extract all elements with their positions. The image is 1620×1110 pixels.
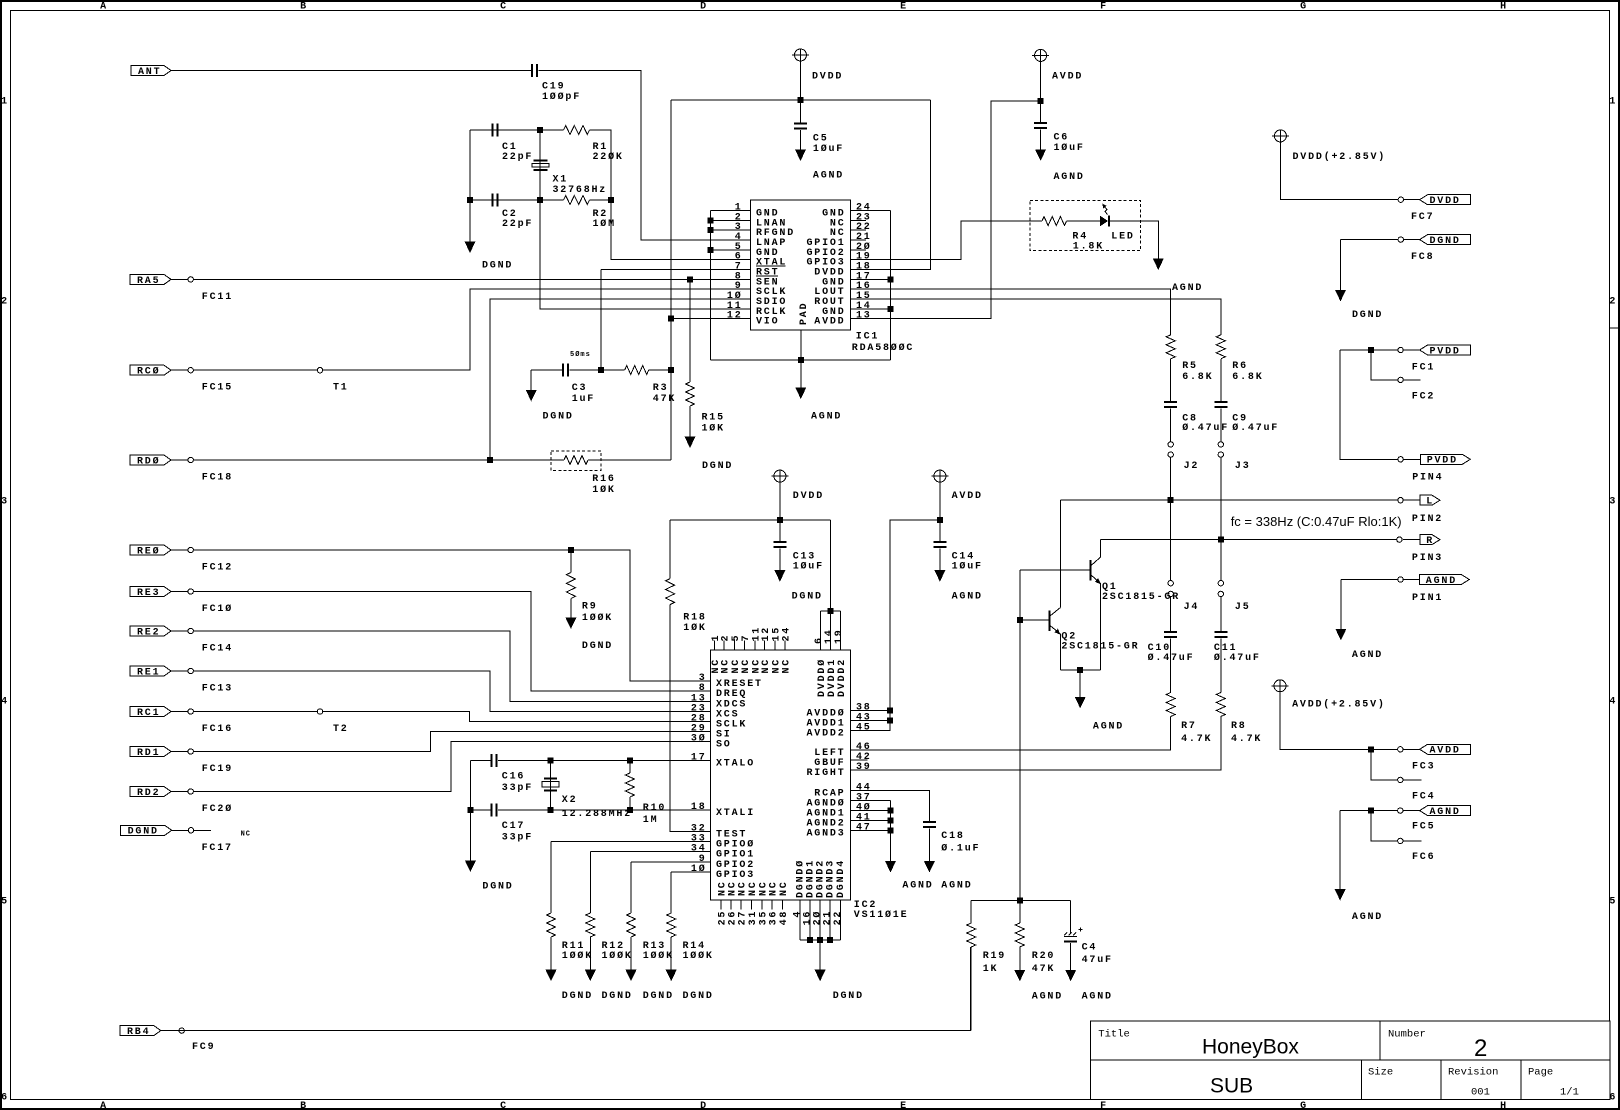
wire AVDD rail to pin 13 xyxy=(851,101,1041,319)
ground DGND R11 xyxy=(546,970,557,982)
svg-text:R9: R9 xyxy=(582,601,598,612)
wire R row xyxy=(1101,539,1397,541)
wire C19 to IC1 pin 4 LNAP xyxy=(539,71,751,241)
svg-text:H: H xyxy=(1500,1101,1508,1110)
junction AGND1 xyxy=(888,808,893,813)
svg-text:J2: J2 xyxy=(1184,461,1200,472)
wire R5 to C8 xyxy=(1170,359,1172,402)
diode LED xyxy=(1100,204,1110,227)
svg-text:1/1: 1/1 xyxy=(1560,1087,1579,1099)
ground AGND LED xyxy=(1153,259,1164,271)
svg-text:DVDD: DVDD xyxy=(812,72,843,83)
svg-text:48: 48 xyxy=(779,910,790,926)
svg-text:NC: NC xyxy=(748,880,759,896)
wire rail to AGND xyxy=(800,360,802,388)
wire C4 to ground xyxy=(1070,943,1072,970)
svg-text:NC: NC xyxy=(761,658,772,674)
junction RE0 R9 xyxy=(568,548,573,553)
wire emitters to ground xyxy=(1079,670,1081,697)
IC2 bottom NC pin 31 xyxy=(751,900,753,910)
svg-text:18: 18 xyxy=(691,802,707,813)
resistor R3 xyxy=(625,366,649,375)
wire XTALO rail xyxy=(470,760,491,762)
svg-text:2: 2 xyxy=(1474,1035,1487,1062)
svg-text:RB4: RB4 xyxy=(127,1027,150,1038)
svg-text:22pF: 22pF xyxy=(502,152,533,163)
svg-text:GND: GND xyxy=(822,307,845,318)
capacitor C5 plates xyxy=(794,123,807,129)
svg-text:Number: Number xyxy=(1388,1029,1426,1041)
svg-text:DGND: DGND xyxy=(602,991,633,1002)
svg-text:12: 12 xyxy=(761,626,772,642)
wire IC1 pin21 GPIO1 stub xyxy=(851,239,867,241)
IC2 DGND2 pin 20 xyxy=(819,900,821,940)
wire GPIO3 to R14 xyxy=(671,871,710,873)
capacitor C11 xyxy=(1214,632,1227,638)
junction R3 right xyxy=(669,368,674,373)
IC2 bottom NC pin 25 xyxy=(720,900,722,910)
svg-text:C16: C16 xyxy=(502,772,525,783)
junction AVDD rail IC2 xyxy=(937,518,942,523)
junction AVDD1 xyxy=(888,718,893,723)
port connector RE0 xyxy=(130,545,171,555)
svg-text:XTALI: XTALI xyxy=(716,808,755,819)
svg-text:FC3: FC3 xyxy=(1412,761,1435,772)
svg-text:2SC1815-GR: 2SC1815-GR xyxy=(1102,592,1180,603)
svg-text:1ØuF: 1ØuF xyxy=(793,561,824,573)
wire to C6 xyxy=(1040,101,1042,123)
resistor R16 optional dashed box xyxy=(551,451,601,471)
wire DVDD to R18 xyxy=(669,520,671,579)
svg-text:FC2: FC2 xyxy=(1412,392,1435,403)
junction AVDD rail xyxy=(1038,98,1043,103)
svg-text:DVDD: DVDD xyxy=(793,491,824,502)
ground AGND C18 xyxy=(924,861,935,873)
power symbol DVDD IC2 xyxy=(771,470,788,482)
junction FC3 xyxy=(1368,747,1373,752)
svg-text:13: 13 xyxy=(856,311,872,322)
wire DGND bus xyxy=(800,939,840,941)
svg-text:XTALO: XTALO xyxy=(716,759,755,770)
wire IC1 pin2 stub xyxy=(711,219,751,221)
svg-text:R19: R19 xyxy=(983,951,1006,962)
capacitor C14 plates xyxy=(933,542,946,548)
svg-text:1: 1 xyxy=(1,96,9,107)
wire X2 vertical xyxy=(550,761,552,811)
wire R20 top xyxy=(1019,901,1021,924)
node FC3 circle xyxy=(1398,747,1403,752)
svg-text:NC: NC xyxy=(769,880,780,896)
svg-text:GPIO1: GPIO1 xyxy=(806,238,845,249)
port connector DGND FC8 xyxy=(1403,239,1419,241)
resistor R1 xyxy=(564,126,590,135)
IC2 bottom NC pin 35 xyxy=(761,900,763,910)
wire FC8 to ground xyxy=(1340,240,1342,290)
junction X1 bottom xyxy=(538,198,543,203)
svg-text:C17: C17 xyxy=(502,821,525,832)
svg-text:Ø.47uF: Ø.47uF xyxy=(1214,652,1261,664)
wire GPIO1 jog xyxy=(589,852,591,913)
svg-text:FC11: FC11 xyxy=(202,292,233,303)
junction DGND bus b xyxy=(818,938,823,943)
svg-text:GND: GND xyxy=(822,277,845,288)
svg-text:AGND: AGND xyxy=(1426,576,1457,587)
wire IC1 pin3 stub xyxy=(711,229,751,231)
junction SEN R15 xyxy=(688,277,693,282)
capacitor C3 xyxy=(563,364,569,377)
wire IC1 pin24 GND stub xyxy=(851,210,891,212)
svg-text:1ØK: 1ØK xyxy=(702,422,725,434)
svg-text:17: 17 xyxy=(691,753,707,764)
wire C6 to ground xyxy=(1040,130,1042,150)
svg-text:1ØØK: 1ØØK xyxy=(643,950,674,962)
svg-text:1ØØK: 1ØØK xyxy=(683,950,714,962)
svg-text:R16: R16 xyxy=(592,474,615,485)
svg-text:FC9: FC9 xyxy=(192,1042,215,1053)
wire C4 top xyxy=(1070,901,1072,934)
svg-text:18: 18 xyxy=(856,262,872,273)
wire IC1 pin23 NC stub xyxy=(851,219,867,221)
wire ROUT to R6 xyxy=(851,299,1221,335)
ground AGND C4 xyxy=(1065,970,1076,982)
wire C11 to R8 xyxy=(1220,639,1222,693)
svg-text:47uF: 47uF xyxy=(1082,955,1113,966)
junction AGND3 xyxy=(888,828,893,833)
svg-text:22pF: 22pF xyxy=(502,219,533,230)
wire AVDD1 stub xyxy=(851,720,891,722)
transistor Q2 2SC1815-GR xyxy=(1049,608,1061,635)
svg-text:NC: NC xyxy=(830,218,846,229)
wire GPIO0 jog xyxy=(550,842,552,913)
svg-text:DGND: DGND xyxy=(543,411,574,422)
wire DVDD stem xyxy=(800,61,802,100)
node RD1 circle xyxy=(188,749,193,754)
svg-text:AGND: AGND xyxy=(1032,991,1063,1002)
svg-text:DGND: DGND xyxy=(128,827,159,838)
wire AGND1 stub xyxy=(851,810,891,812)
wire IC1 pin5 stub xyxy=(711,249,751,251)
svg-text:AGND: AGND xyxy=(1082,991,1113,1002)
wire AGND2 stub xyxy=(851,820,891,822)
svg-text:FC6: FC6 xyxy=(1412,852,1435,863)
svg-text:25: 25 xyxy=(717,910,728,926)
crystal X2 xyxy=(542,778,559,791)
wire R13 to ground xyxy=(630,937,632,970)
port connector RD2 xyxy=(130,787,171,797)
port connector RD0 xyxy=(130,455,171,465)
IC2 bottom NC pin 26 xyxy=(730,900,732,910)
wire IC1 ground rail xyxy=(711,359,891,361)
svg-text:24: 24 xyxy=(856,203,872,214)
svg-text:C5: C5 xyxy=(813,133,829,144)
svg-text:R8: R8 xyxy=(1231,721,1247,732)
wire DVDD1 stub xyxy=(830,611,832,650)
svg-text:SO: SO xyxy=(716,740,732,751)
wire DVDD rail to bus xyxy=(830,520,832,611)
svg-text:FC12: FC12 xyxy=(202,563,233,574)
IC2 VS1101E body xyxy=(710,650,850,900)
svg-text:R20: R20 xyxy=(1032,951,1055,962)
resistor R7 xyxy=(1166,693,1175,717)
ground DGND R13 xyxy=(626,970,637,982)
resistor R18 xyxy=(666,579,675,605)
jumper J5 pad B xyxy=(1218,591,1223,596)
wire R1 to right rail xyxy=(590,130,751,260)
wire R19 to RB4 xyxy=(970,947,972,1031)
wire R2 to right rail xyxy=(590,199,612,201)
svg-text:17: 17 xyxy=(856,271,872,282)
svg-text:PIN4: PIN4 xyxy=(1412,473,1443,484)
wire FC6 jog xyxy=(1371,811,1398,841)
svg-text:1.8K: 1.8K xyxy=(1073,242,1104,253)
junction VIO xyxy=(669,316,674,321)
resistor R14 xyxy=(667,913,676,937)
svg-text:15: 15 xyxy=(856,291,872,302)
port connector RE2 xyxy=(130,626,171,636)
svg-text:3Ø: 3Ø xyxy=(691,733,707,745)
wire DVDD rail xyxy=(671,99,931,101)
wire RST down xyxy=(600,270,602,371)
capacitor C6 plates xyxy=(1034,123,1047,129)
svg-text:4: 4 xyxy=(1,696,9,707)
svg-text:RE1: RE1 xyxy=(137,667,160,678)
svg-text:C: C xyxy=(500,1101,508,1110)
power symbol AVDD xyxy=(1032,49,1049,61)
svg-text:R5: R5 xyxy=(1182,361,1198,372)
wire DVDD rail to pin 18 xyxy=(851,100,931,270)
port connector RC1 xyxy=(130,707,171,717)
svg-text:fc = 338Hz (C:0.47uF Rlo:1K): fc = 338Hz (C:0.47uF Rlo:1K) xyxy=(1231,514,1402,529)
node RD0 circle xyxy=(188,457,193,462)
svg-text:Ø.1uF: Ø.1uF xyxy=(941,843,980,855)
svg-text:Ø.47uF: Ø.47uF xyxy=(1148,652,1195,664)
port connector AVDD FC3 xyxy=(1403,748,1419,750)
wire RC1 to SCLK xyxy=(171,712,711,722)
svg-text:33pF: 33pF xyxy=(502,783,533,794)
svg-text:NC: NC xyxy=(721,658,732,674)
svg-text:PIN1: PIN1 xyxy=(1412,593,1443,604)
svg-text:FC19: FC19 xyxy=(202,764,233,775)
wire emitter rail xyxy=(1060,669,1100,671)
wire DVDD stem IC2 xyxy=(779,482,781,520)
wire RE3 to DREQ xyxy=(171,592,711,692)
wire R4 to LED xyxy=(1067,220,1101,222)
svg-text:4.7K: 4.7K xyxy=(1181,734,1212,745)
ground AGND IC1 PAD xyxy=(795,388,806,400)
ground DGND R9 xyxy=(565,618,576,630)
junction pin17 GND xyxy=(888,277,893,282)
svg-text:DVDD2: DVDD2 xyxy=(837,658,848,697)
wire SEN to R15 xyxy=(689,279,691,382)
svg-text:22: 22 xyxy=(833,910,844,926)
svg-text:D: D xyxy=(700,1101,708,1110)
svg-text:FC15: FC15 xyxy=(202,383,233,394)
svg-text:LED: LED xyxy=(1111,232,1134,243)
junction mute rail xyxy=(1017,898,1022,903)
svg-text:6.8K: 6.8K xyxy=(1182,372,1213,383)
svg-text:FC2Ø: FC2Ø xyxy=(202,803,233,815)
wire RE0 to XRESET xyxy=(171,550,711,681)
node DGND circle xyxy=(188,828,193,833)
svg-text:RE2: RE2 xyxy=(137,627,160,638)
node FC1 circle xyxy=(1398,347,1403,352)
svg-text:2: 2 xyxy=(1,296,9,307)
junction DVDD rail xyxy=(798,98,803,103)
svg-text:DVDD(+2.85V): DVDD(+2.85V) xyxy=(1293,151,1387,163)
wire FC2 jog xyxy=(1371,350,1398,380)
svg-text:12.288MHz: 12.288MHz xyxy=(562,809,632,820)
svg-text:NC: NC xyxy=(782,658,793,674)
node RC0 circle xyxy=(188,368,193,373)
capacitor C1 xyxy=(492,124,498,137)
port connector ANT xyxy=(131,66,171,76)
svg-text:36: 36 xyxy=(769,910,780,926)
svg-text:L: L xyxy=(1426,497,1434,508)
IC2 top NC pin 12 xyxy=(764,641,766,651)
IC2 top NC pin 11 xyxy=(754,641,756,651)
svg-text:R3: R3 xyxy=(653,383,669,394)
svg-text:DGND: DGND xyxy=(702,461,733,472)
junction right rail xyxy=(609,198,614,203)
wire C2 to R2 xyxy=(499,199,564,201)
svg-text:VS11Ø1E: VS11Ø1E xyxy=(854,909,909,921)
wire R14 to ground xyxy=(670,937,672,970)
resistor R20 xyxy=(1015,923,1024,947)
svg-text:7: 7 xyxy=(741,634,752,642)
node T1 circle xyxy=(317,368,322,373)
svg-text:FC18: FC18 xyxy=(202,473,233,484)
jumper J3 pad A xyxy=(1218,442,1223,447)
port connector AGND PIN1 xyxy=(1403,579,1419,581)
svg-text:Title: Title xyxy=(1098,1029,1130,1041)
svg-text:5: 5 xyxy=(1,896,9,907)
capacitor C16 xyxy=(491,754,497,767)
junction emitters xyxy=(1078,667,1083,672)
resistor R10 xyxy=(625,773,634,797)
ground DGND C13 xyxy=(774,570,785,582)
svg-text:RC1: RC1 xyxy=(137,708,160,719)
svg-text:FC14: FC14 xyxy=(202,644,233,655)
svg-text:NC: NC xyxy=(241,830,251,838)
ground AGND C14 xyxy=(934,570,945,582)
svg-text:2: 2 xyxy=(721,634,732,642)
svg-text:F: F xyxy=(1100,1101,1108,1110)
svg-text:R12: R12 xyxy=(602,941,625,952)
svg-text:F: F xyxy=(1100,2,1108,13)
resistor R5 xyxy=(1166,335,1175,359)
wire R7 to LEFT xyxy=(851,717,1171,751)
wire X1 vertical xyxy=(539,130,541,200)
svg-text:E: E xyxy=(900,1101,908,1110)
ground DGND R14 xyxy=(666,970,677,982)
wire DGND bus to ground xyxy=(819,940,821,970)
svg-text:1: 1 xyxy=(1609,96,1617,107)
svg-text:J3: J3 xyxy=(1235,461,1251,472)
wire AGND PIN1 xyxy=(1341,579,1398,581)
wire C5 to ground xyxy=(800,130,802,150)
svg-text:1ØØK: 1ØØK xyxy=(602,950,633,962)
wire R19 top xyxy=(970,901,972,924)
svg-text:RDØ: RDØ xyxy=(137,455,160,467)
resistor R11 xyxy=(547,913,556,937)
svg-text:X2: X2 xyxy=(562,795,578,806)
svg-text:RCØ: RCØ xyxy=(137,366,160,378)
svg-text:DVDD: DVDD xyxy=(1430,196,1461,207)
wire FC5 to ground xyxy=(1339,811,1341,890)
resistor R15 xyxy=(686,382,695,406)
op-amp U1 IC1 RDA5800C body xyxy=(751,200,851,330)
wire C9 to J3 xyxy=(1220,409,1222,442)
crystal X1 xyxy=(532,160,549,171)
wire RD0 to SDIO pin 10 xyxy=(490,299,751,460)
ground DGND C3 xyxy=(526,390,537,402)
node RB4 circle xyxy=(179,1028,184,1033)
wire RD2 to SO xyxy=(171,742,711,792)
junction Q2 base xyxy=(1017,618,1022,623)
svg-text:FC5: FC5 xyxy=(1412,822,1435,833)
svg-text:FC7: FC7 xyxy=(1411,212,1434,223)
wire C3 to R3 xyxy=(570,369,625,371)
wire R8 to RIGHT xyxy=(851,717,1221,771)
ground AGND PIN1 xyxy=(1335,629,1346,641)
svg-text:AGND: AGND xyxy=(1430,807,1461,818)
svg-text:33pF: 33pF xyxy=(502,833,533,844)
svg-text:ANT: ANT xyxy=(138,67,161,78)
wire DVDD0 stub xyxy=(820,611,822,650)
ground DGND crystal xyxy=(465,242,476,254)
svg-text:R14: R14 xyxy=(683,941,706,952)
svg-text:NC: NC xyxy=(738,880,749,896)
svg-text:1K: 1K xyxy=(983,964,999,975)
wire to C13 xyxy=(779,520,781,542)
wire LOUT to R5 xyxy=(851,289,1171,335)
svg-text:GPIO3: GPIO3 xyxy=(716,870,755,881)
wire C8 to J2 xyxy=(1170,409,1172,442)
svg-text:1ØK: 1ØK xyxy=(592,484,615,496)
svg-text:C3: C3 xyxy=(572,383,588,394)
resistor R12 xyxy=(586,913,595,937)
svg-text:T1: T1 xyxy=(333,383,349,394)
junction R10 bottom xyxy=(627,808,632,813)
svg-text:16: 16 xyxy=(856,281,872,292)
port connector PVDD PIN4 xyxy=(1403,458,1420,460)
svg-text:R7: R7 xyxy=(1181,721,1197,732)
wire C17 to XTALI xyxy=(498,809,710,811)
jumper J4 pad B xyxy=(1168,591,1173,596)
node RE3 circle xyxy=(188,589,193,594)
wire DGND tip to circle xyxy=(172,829,189,831)
wire GPIO3 jog xyxy=(670,872,672,913)
jumper J5 pad A xyxy=(1218,581,1223,586)
ground AGND R20 xyxy=(1014,970,1025,982)
port connector DGND FC17 xyxy=(121,825,172,835)
resistor R9 xyxy=(566,573,575,599)
port connector RE1 xyxy=(130,666,171,676)
svg-text:21: 21 xyxy=(856,232,872,243)
svg-text:5Øms: 5Øms xyxy=(570,350,591,359)
svg-text:47K: 47K xyxy=(653,394,676,405)
capacitor C17 xyxy=(491,804,497,817)
svg-text:IC1: IC1 xyxy=(856,332,879,343)
wire DVDD2 stub xyxy=(840,611,842,650)
wire GPIO1 to R12 xyxy=(590,851,710,853)
wire R9 to ground xyxy=(570,599,572,618)
wire PIN1 to ground xyxy=(1340,580,1342,629)
svg-text:DGND: DGND xyxy=(643,991,674,1002)
wire R12 to ground xyxy=(589,937,591,970)
svg-text:H: H xyxy=(1500,2,1508,13)
port connector RB4 xyxy=(120,1026,161,1036)
